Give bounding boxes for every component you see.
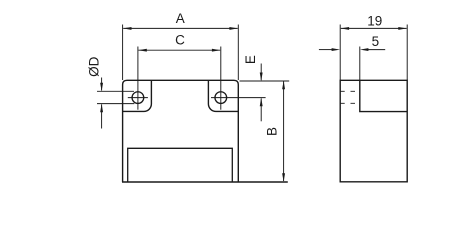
svg-text:19: 19 [367, 14, 382, 29]
svg-text:E: E [243, 55, 258, 64]
svg-text:ØD: ØD [87, 56, 102, 77]
svg-text:B: B [264, 127, 279, 136]
svg-text:C: C [175, 33, 185, 48]
svg-text:5: 5 [372, 34, 380, 49]
svg-text:A: A [176, 11, 185, 26]
